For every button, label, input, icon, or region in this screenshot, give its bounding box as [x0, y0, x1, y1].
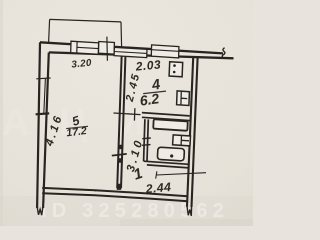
svg-text:3.20: 3.20 [71, 58, 93, 71]
wall bottom lower [42, 193, 188, 201]
window left mid [44, 78, 46, 113]
dots on bottom wall [95, 190, 97, 192]
tick threshold [133, 108, 136, 120]
bathtub [153, 119, 187, 130]
junction block entrance [117, 184, 122, 190]
washbasin divider [181, 135, 189, 145]
toilet [157, 147, 184, 161]
dimension line 2.44 [156, 171, 206, 178]
kitchen sink [177, 91, 190, 106]
tick bath door lower [142, 144, 151, 147]
tick top dim [106, 37, 109, 61]
svg-text:2.03: 2.03 [134, 57, 161, 73]
wall bath left line2 [147, 119, 148, 161]
washbasin [173, 135, 191, 146]
wall left outer [37, 42, 40, 208]
window room5 mid [77, 47, 98, 48]
break bottom-left [37, 207, 43, 216]
kitchen window1 box [114, 47, 147, 57]
stove burner dot 2 [173, 71, 176, 74]
wall top outer [40, 42, 223, 53]
kitchen window2 mid [152, 50, 179, 52]
tick bath door upper [142, 137, 151, 140]
stove burner dot 1 [173, 64, 176, 67]
wall top inner [49, 52, 234, 58]
break bottom-right [187, 206, 192, 216]
wall room5-kitchen line1 [117, 54, 122, 188]
wall bath bottom upper [144, 161, 189, 164]
tick room5 door [112, 154, 127, 156]
break top-right [222, 48, 225, 59]
wall room5-kitchen line2 [121, 55, 126, 189]
wall kitchen-bath lower [142, 117, 190, 120]
balcony door box [99, 42, 115, 55]
balcony outline [49, 19, 122, 46]
tick left upper [36, 77, 50, 80]
fraction bar room 5 [66, 126, 88, 128]
stove [169, 62, 183, 77]
wall kitchen-bath upper [142, 113, 190, 116]
tick left lower [36, 112, 50, 115]
kitchen sink divider [181, 91, 187, 105]
svg-text:17.2: 17.2 [66, 125, 88, 139]
door jamb block lower [118, 158, 123, 162]
wall bottom upper [42, 188, 187, 196]
window room5 box [71, 41, 99, 54]
wall right line1 [187, 58, 193, 207]
wall bath bottom lower [147, 165, 189, 168]
wall bath left line1 [144, 119, 145, 161]
svg-text:6.2: 6.2 [139, 90, 161, 109]
wall left inner [43, 52, 49, 208]
toilet drain dot [170, 154, 173, 157]
svg-text:2.44: 2.44 [144, 180, 172, 196]
fraction bar kitchen [143, 91, 166, 94]
window room5 divider [76, 42, 78, 53]
kitchen window1 mid [114, 52, 147, 54]
wall right line2 [192, 58, 198, 207]
kitchen window2 box [151, 45, 179, 58]
door jamb block upper [119, 145, 124, 149]
paper background [0, 0, 253, 226]
svg-text:ID 325280562: ID 325280562 [41, 200, 229, 222]
door threshold room5 [114, 113, 141, 115]
